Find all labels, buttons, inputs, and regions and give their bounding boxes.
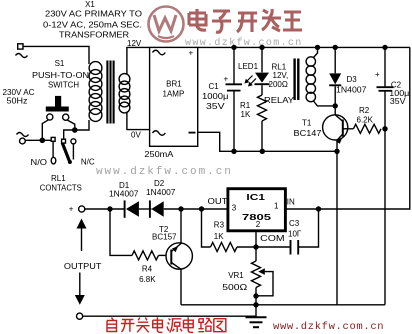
svg-text:+: + bbox=[375, 70, 380, 79]
wire mains bottom to N/O contact bbox=[25, 139, 51, 141]
svg-text:RL1: RL1 bbox=[51, 174, 66, 183]
svg-text:2: 2 bbox=[256, 220, 261, 229]
svg-text:RL1: RL1 bbox=[272, 62, 287, 71]
transformer X1 secondary coil bbox=[119, 74, 130, 113]
svg-text:0V: 0V bbox=[131, 131, 141, 140]
label X1 transformer title bbox=[43, 0, 142, 40]
capacitor C1 bbox=[224, 47, 243, 151]
svg-text:T1: T1 bbox=[302, 118, 312, 127]
svg-text:12V,: 12V, bbox=[273, 71, 289, 80]
diode D2 1N4007 bbox=[146, 179, 176, 218]
junction dot LED top bbox=[259, 45, 264, 50]
svg-text:N/O: N/O bbox=[31, 158, 48, 167]
svg-text:www.dzkfw.com.cn: www.dzkfw.com.cn bbox=[96, 166, 233, 178]
svg-text:D2: D2 bbox=[154, 179, 165, 188]
junction dot D3 top bbox=[333, 45, 338, 50]
junction dot mains/switch-left bbox=[40, 138, 46, 144]
junction dot COM node bbox=[253, 244, 258, 249]
transistor T2 BC157 bbox=[152, 209, 192, 305]
svg-text:200Ω: 200Ω bbox=[269, 80, 288, 89]
wire output rail left bbox=[85, 208, 125, 210]
svg-text:COM: COM bbox=[260, 234, 285, 243]
svg-text:RELAY: RELAY bbox=[264, 96, 295, 105]
output terminal + bbox=[69, 205, 85, 214]
svg-text:0-12V AC, 250mA SEC.: 0-12V AC, 250mA SEC. bbox=[43, 20, 142, 29]
svg-text:C3: C3 bbox=[289, 219, 300, 228]
junction dot C3 to IN rail bbox=[316, 206, 321, 211]
wire bottom common rail bbox=[181, 304, 385, 306]
svg-text:1: 1 bbox=[274, 202, 279, 211]
wire IC1 pin2 down bbox=[255, 231, 257, 247]
transformer X1 primary coil bbox=[89, 62, 102, 122]
junction dot relay top bbox=[315, 45, 320, 50]
svg-text:35V: 35V bbox=[390, 97, 406, 106]
svg-text:1K: 1K bbox=[214, 232, 224, 241]
wire +12V rail down right edge to IN bbox=[285, 47, 409, 209]
relay contact N/C circle and lead bbox=[71, 139, 76, 160]
svg-text:1000μ: 1000μ bbox=[202, 92, 229, 101]
resistor R2 6.2K bbox=[353, 106, 381, 133]
diode D3 1N4007 bbox=[329, 47, 367, 106]
label OUTPUT with arrows bbox=[64, 219, 102, 305]
svg-text:+: + bbox=[69, 205, 74, 214]
junction dot VR1 on bottom rail bbox=[253, 302, 258, 307]
transistor T1 BC147 bbox=[294, 106, 354, 151]
wire R4 branch down bbox=[110, 209, 132, 255]
junction dot C2 top bbox=[382, 45, 387, 50]
LED1 bbox=[238, 47, 270, 95]
wire R3 branch down bbox=[202, 209, 211, 247]
contact N/O oval bbox=[51, 157, 56, 164]
svg-text:C1: C1 bbox=[209, 82, 220, 91]
svg-text:+: + bbox=[189, 49, 194, 58]
svg-text:BC147: BC147 bbox=[294, 129, 323, 138]
svg-text:OUTPUT: OUTPUT bbox=[64, 262, 102, 271]
svg-text:500Ω: 500Ω bbox=[222, 283, 247, 292]
svg-text:VR1: VR1 bbox=[228, 271, 244, 280]
junction dot switch-right/primary bbox=[72, 127, 78, 133]
svg-text:S1: S1 bbox=[55, 59, 65, 68]
svg-text:TRANSFORMER: TRANSFORMER bbox=[59, 31, 129, 40]
svg-text:1N4007: 1N4007 bbox=[336, 86, 367, 95]
wire secondary top to BR1 bbox=[127, 47, 150, 74]
wire switch right contact down bbox=[67, 120, 75, 130]
relay contact moving arm bbox=[62, 143, 72, 164]
title 自开关电源电路图 (red) bbox=[107, 317, 226, 332]
mains terminal bottom (circle) bbox=[17, 133, 29, 144]
svg-text:CONTACTS: CONTACTS bbox=[40, 183, 82, 192]
wire BR1 minus to ground rail bbox=[198, 132, 337, 151]
svg-text:R1: R1 bbox=[240, 101, 251, 110]
svg-text:IC1: IC1 bbox=[246, 193, 265, 202]
svg-text:12V: 12V bbox=[127, 39, 142, 48]
svg-text:3: 3 bbox=[232, 203, 237, 212]
svg-text:R2: R2 bbox=[359, 106, 370, 115]
svg-text:1N4007: 1N4007 bbox=[146, 188, 176, 197]
wire VR1 bottom to rail bbox=[255, 296, 257, 305]
svg-text:LED1: LED1 bbox=[238, 62, 259, 71]
svg-text:230V AC PRIMARY TO: 230V AC PRIMARY TO bbox=[45, 10, 142, 19]
svg-text:10Γ: 10Γ bbox=[288, 230, 302, 239]
svg-text:250mA: 250mA bbox=[144, 150, 174, 159]
junction dot R4 branch bbox=[107, 206, 112, 211]
wire N/O square to contact oval bbox=[52, 141, 54, 157]
relay contact arm terminal square bbox=[62, 139, 66, 143]
switch S1 pushbutton bbox=[46, 96, 69, 120]
resistor R1 1K bbox=[240, 95, 267, 151]
junction dot C1 top bbox=[231, 45, 236, 50]
svg-text:R3: R3 bbox=[214, 221, 225, 230]
capacitor C3 bbox=[256, 209, 319, 255]
wire T1 emitter node down to bottom rail bbox=[336, 151, 338, 304]
svg-text:+: + bbox=[224, 75, 229, 84]
svg-text:BC157: BC157 bbox=[152, 232, 177, 241]
watermark logo circled-W top bbox=[149, 7, 184, 42]
svg-text:D3: D3 bbox=[347, 75, 358, 84]
wire D2 to IC1 OUT bbox=[164, 208, 228, 210]
potentiometer VR1 500 ohm bbox=[222, 247, 273, 296]
svg-text:50Hz: 50Hz bbox=[7, 97, 28, 106]
wire primary bottom to arm terminal bbox=[64, 120, 89, 139]
svg-text:SWITCH: SWITCH bbox=[48, 80, 79, 89]
svg-text:IN: IN bbox=[287, 198, 295, 207]
svg-text:X1: X1 bbox=[85, 0, 95, 9]
junction dot R3 branch bbox=[199, 206, 204, 211]
svg-text:1N4007: 1N4007 bbox=[109, 190, 139, 199]
junction dot VR1 wiper/bottom bbox=[253, 293, 258, 298]
svg-text:R4: R4 bbox=[142, 265, 153, 274]
junction dot R1 bottom bbox=[260, 149, 265, 154]
wire secondary bottom to BR1 bbox=[127, 112, 150, 130]
junction dot D3/coil/T1 bbox=[333, 103, 338, 108]
wire switch left contact down bbox=[42, 120, 48, 140]
diode D1 1N4007 bbox=[109, 181, 139, 218]
wire ground stub bbox=[255, 305, 257, 317]
wire top +12V rail bbox=[198, 46, 410, 48]
svg-text:www.dzkfw.com.cn: www.dzkfw.com.cn bbox=[273, 321, 384, 333]
svg-text:1K: 1K bbox=[241, 110, 251, 119]
svg-text:N/C: N/C bbox=[81, 158, 95, 167]
svg-text:1AMP: 1AMP bbox=[163, 89, 185, 98]
svg-text:35V: 35V bbox=[206, 102, 225, 111]
svg-text:PUSH-TO-ON: PUSH-TO-ON bbox=[32, 71, 89, 80]
transformer core bars bbox=[107, 61, 113, 124]
output terminal minus bbox=[77, 313, 83, 319]
resistor R4 6.8K bbox=[132, 251, 167, 284]
mains terminal top (square) bbox=[16, 44, 28, 58]
relay contact N/O terminal square bbox=[51, 137, 55, 141]
ground symbol bbox=[246, 317, 267, 327]
wire output minus rail bbox=[83, 315, 256, 317]
svg-text:6.8K: 6.8K bbox=[139, 275, 156, 284]
junction dot T1 emitter / ground rail bbox=[334, 149, 339, 154]
wire R2 node down to bottom rail bbox=[384, 129, 386, 305]
junction dot C1 bottom bbox=[231, 149, 236, 154]
junction dot R2 right bbox=[382, 126, 387, 131]
IC1 7805 box bbox=[228, 189, 286, 231]
capacitor C2 bbox=[375, 47, 410, 128]
resistor R3 1K bbox=[211, 221, 257, 252]
bridge rectifier BR1 box bbox=[150, 47, 198, 146]
wire mains top to primary bbox=[23, 46, 89, 64]
relay RL1 coil bbox=[295, 47, 335, 106]
junction dot T2 branch bbox=[178, 206, 183, 211]
watermark title 电子开发王 calligraphy bbox=[189, 9, 302, 32]
wire D1 to D2 bbox=[139, 208, 152, 210]
svg-text:BR1: BR1 bbox=[166, 80, 182, 89]
svg-text:OUT: OUT bbox=[208, 197, 228, 206]
